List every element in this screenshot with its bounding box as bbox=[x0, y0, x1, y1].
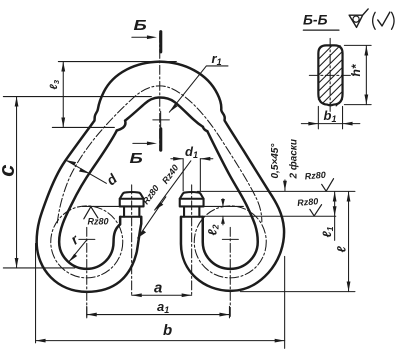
dimension h*: extension lines bbox=[344, 45, 371, 104]
dimension l3: line and arrows bbox=[62, 62, 64, 128]
section B-B: centerlines bbox=[329, 38, 331, 113]
dimension c: extension lines bbox=[3, 96, 151, 98]
wire: extension line A cap-top level bbox=[197, 190, 355, 192]
svg-text:Б: Б bbox=[130, 150, 143, 167]
svg-text:b: b bbox=[163, 322, 172, 339]
dimension d: leader across left leg bbox=[66, 160, 106, 183]
dimension b1: line and outside arrows bbox=[301, 123, 360, 125]
wire: rod centerline over apex and legs (dash-dot) bbox=[57, 86, 262, 223]
dimension l3: extension lines bbox=[58, 61, 176, 63]
wire: right loop centerline circle (dash-dot) bbox=[194, 206, 266, 278]
transistor-like stud head: left stud dome cap bbox=[120, 192, 144, 199]
dimension h*: line and arrows bbox=[365, 46, 367, 105]
wire: apex centerline (dash-dot vertical) bbox=[159, 33, 161, 150]
wire: right inner contour (leg inner edge + loop hole) bbox=[203, 131, 258, 269]
dimension r: leader to left loop hole bbox=[69, 240, 87, 262]
wire: extension line C loop bottom level bbox=[240, 291, 355, 293]
wire: right inner step jog bbox=[203, 127, 208, 132]
dimension a1: line and arrows bbox=[87, 314, 230, 316]
dimension b1: extension lines bbox=[318, 106, 342, 129]
wire: extension line B shoulder level bbox=[199, 215, 335, 217]
svg-text:a: a bbox=[154, 279, 162, 296]
dimension b: line and arrows bbox=[36, 340, 285, 342]
svg-text:0,5×45°: 0,5×45° bbox=[270, 143, 281, 179]
dimension l: line and arrows bbox=[348, 192, 350, 292]
wire: right loop vertical centerline (dash-dot) bbox=[229, 227, 231, 318]
roughness check on left collar line bbox=[84, 207, 98, 219]
right stud neck bbox=[184, 206, 199, 216]
symbol: machined-surface roughness mark bbox=[349, 9, 368, 27]
dimension d1: extension lines bbox=[183, 159, 200, 191]
svg-text:Rz80: Rz80 bbox=[88, 217, 109, 227]
dimension l1: line and arrows bbox=[334, 192, 336, 241]
dimension r1: leader to apex hole arc bbox=[169, 66, 228, 112]
section B-B: hatched cross-section outline bbox=[318, 45, 342, 105]
leader Rz40 bbox=[155, 161, 191, 210]
symbol: (v) rest of surfaces bbox=[373, 12, 376, 29]
wire: link outer contour left half bbox=[37, 62, 160, 292]
left stud collar bbox=[120, 199, 144, 207]
wire: extension line collar-bottom right of right stud bbox=[204, 205, 244, 207]
svg-text:2 фаски: 2 фаски bbox=[288, 139, 300, 180]
wire: left inner contour (leg inner edge + loop hole) bbox=[59, 131, 120, 269]
right stud dome cap bbox=[180, 192, 204, 199]
node: apex radius r1 center cross bbox=[153, 111, 170, 128]
section mark: upper cutting plane trace Б bbox=[159, 32, 162, 52]
wire: extension line collar-bottom left of left stud bbox=[82, 205, 119, 207]
wire: right stud axis (dash-dot) bbox=[191, 185, 193, 297]
right stud collar bbox=[180, 199, 204, 207]
dimension l2: arrows outside bbox=[222, 199, 224, 225]
wire: left stud shoulder line bbox=[120, 216, 141, 218]
dimension a: line and arrows bbox=[132, 294, 192, 296]
roughness check Rz80 on line B bbox=[310, 205, 322, 216]
svg-text:Б: Б bbox=[134, 17, 147, 34]
svg-text:c: c bbox=[0, 165, 19, 177]
section mark: lower cutting plane trace Б bbox=[159, 129, 162, 150]
svg-text:ℓ: ℓ bbox=[335, 246, 349, 253]
wire: left inner step jog bbox=[117, 121, 126, 131]
svg-text:Б-Б: Б-Б bbox=[303, 12, 328, 28]
svg-text:Rz80: Rz80 bbox=[297, 196, 319, 208]
wire: left stud axis (dash-dot) bbox=[131, 185, 133, 297]
section mark: lower arrow bbox=[133, 142, 149, 144]
left stud neck bbox=[124, 206, 139, 216]
svg-text:h*: h* bbox=[349, 63, 363, 76]
dimension d1: line and outside arrows bbox=[171, 158, 213, 160]
wire: left loop centerline circle (dash-dot) bbox=[51, 206, 123, 278]
dimension b: extension lines bbox=[36, 243, 285, 348]
leader Rz80 middle bbox=[138, 197, 166, 238]
label B-B underline bbox=[303, 29, 339, 31]
node: left loop center cross bbox=[79, 238, 95, 240]
section mark: upper arrow bbox=[132, 36, 149, 38]
dimension c: line and arrows bbox=[16, 97, 18, 268]
roughness check Rz80 on line A bbox=[322, 179, 334, 192]
wire: link outer contour right half bbox=[160, 62, 284, 291]
section B-B: hatching bbox=[318, 46, 342, 106]
wire: right stud shoulder line bbox=[181, 216, 203, 218]
svg-text:Rz80: Rz80 bbox=[304, 170, 326, 182]
leader: chamfer note arrow bbox=[284, 180, 286, 191]
node: right loop center cross bbox=[222, 238, 238, 240]
wire: link inner hole top contour (apex) bbox=[125, 98, 203, 127]
dimension a1: extension lines bbox=[87, 306, 230, 318]
wire: left loop vertical centerline (dash-dot) bbox=[86, 227, 88, 318]
